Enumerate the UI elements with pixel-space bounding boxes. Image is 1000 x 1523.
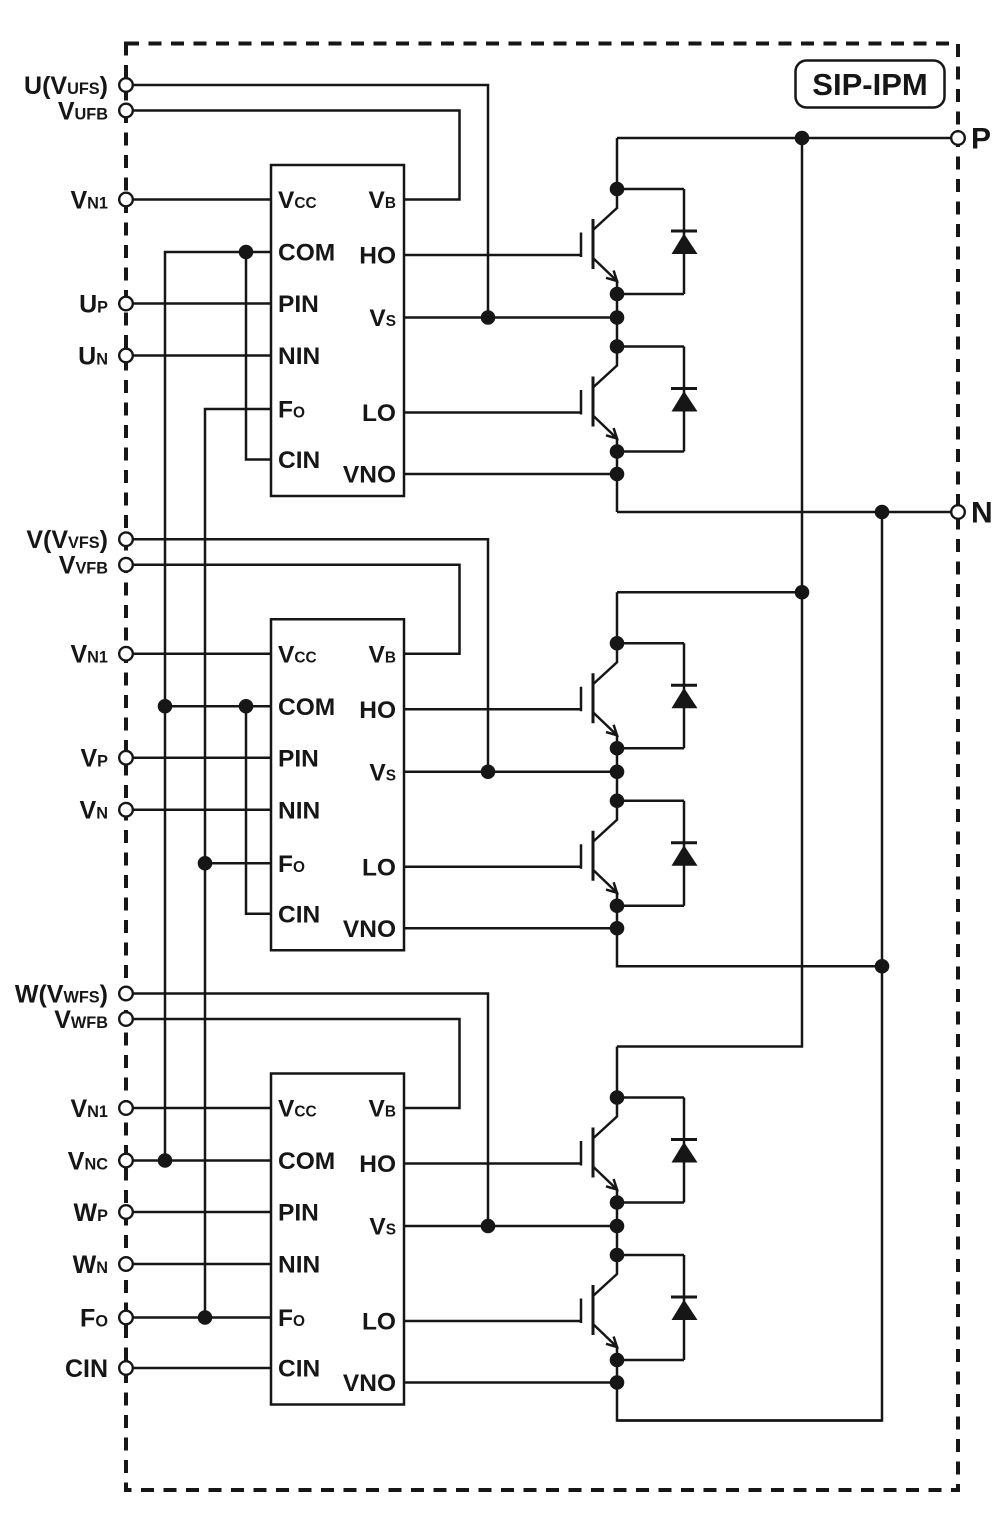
wire LO of U2 to gate of Q4: [404, 866, 581, 869]
junction collector Q4 / D4: [610, 793, 625, 808]
terminal VVFB: [119, 558, 133, 572]
wire emitter of Q4 to N: [617, 906, 882, 967]
terminal VNC: [119, 1154, 133, 1168]
wire Fo bus (Fo pins of U1,U2,U3 to Fo terminal): [205, 409, 271, 1318]
IGBT Q6 (low side, phase W): [581, 1255, 617, 1360]
junction COM/CIN of U1: [239, 245, 254, 260]
IGBT Q5 (high side, phase W): [581, 1098, 617, 1203]
junction emitter Q3 / D3: [610, 741, 625, 756]
wire Vs of U2 to emitter node: [404, 771, 617, 774]
junction collector Q6 / D6: [610, 1248, 625, 1263]
svg-text:LO: LO: [362, 400, 396, 427]
terminal CIN: [119, 1361, 133, 1375]
junction emitter Q2 / D2: [610, 444, 625, 459]
SIP-IPM title box: [796, 61, 945, 108]
wire WP terminal to PIN pin of U3: [133, 1211, 271, 1214]
terminal V(VVVFS): [119, 532, 133, 546]
wire emitter of Q5 to collector of Q6: [616, 1203, 619, 1256]
wire W(WVWFS) terminal to Vs node of phase W: [133, 994, 488, 1227]
terminal Fo: [119, 1311, 133, 1325]
junction N rail / riser: [875, 505, 890, 520]
junction emitter Q1 / D1: [610, 287, 625, 302]
wire emitter of Q3 to collector of Q4: [616, 748, 619, 801]
junction P riser tap to phase V: [795, 585, 810, 600]
terminal WP: [119, 1205, 133, 1219]
terminal WN: [119, 1257, 133, 1271]
svg-text:LO: LO: [362, 1309, 396, 1336]
terminal P: [951, 131, 965, 145]
svg-text:HO: HO: [359, 1151, 396, 1178]
wire emitter of Q6 to N: [617, 1360, 882, 1421]
wire WN terminal to NIN pin of U3: [133, 1263, 271, 1266]
terminal VN1 (phase U): [119, 193, 133, 207]
wire emitter of Q2 to N: [616, 452, 619, 513]
wire LO of U3 to gate of Q6: [404, 1320, 581, 1323]
wire VN1 terminal to Vcc pin of U1: [133, 198, 271, 201]
svg-text:N: N: [971, 496, 993, 529]
junction emitter Q6 / D6: [610, 1353, 625, 1368]
wire collector drop of Q3: [616, 592, 619, 643]
terminal W(WVWFS): [119, 987, 133, 1001]
junction collector Q3 / D3: [610, 636, 625, 651]
wire Vs of U1 to emitter node: [404, 316, 617, 319]
IGBT Q1 (high side, phase U): [581, 189, 617, 294]
wire HO of U1 to gate of Q1: [404, 254, 581, 257]
svg-text:COM: COM: [278, 1148, 335, 1175]
wire UP terminal to PIN pin of U1: [133, 302, 271, 305]
wire VNO of U3 to emitter of Q6: [404, 1381, 617, 1384]
terminal UP: [119, 297, 133, 311]
junction Fo bus at Fo terminal: [198, 1310, 213, 1325]
svg-text:CIN: CIN: [278, 1356, 320, 1383]
free-wheel diode D6: [617, 1255, 698, 1360]
svg-text:VNO: VNO: [343, 1370, 396, 1397]
wire COM bus to COM pin of U2: [165, 705, 271, 708]
junction P rail / riser: [795, 131, 810, 146]
wire Fo terminal to Fo pin of U3: [133, 1316, 271, 1319]
terminal VN1 (phase W): [119, 1101, 133, 1115]
svg-text:CIN: CIN: [65, 1355, 108, 1383]
wire VP terminal to PIN pin of U2: [133, 757, 271, 760]
svg-text:CIN: CIN: [278, 901, 320, 928]
junction collector Q5 / D5: [610, 1090, 625, 1105]
wire VN terminal to NIN pin of U2: [133, 809, 271, 812]
wire COM to CIN link of U2: [246, 706, 271, 914]
junction V-feedback to Vs: [481, 764, 496, 779]
junction VNO node phase W: [610, 1375, 625, 1390]
svg-text:LO: LO: [362, 854, 396, 881]
wire P riser to V/W phases: [617, 138, 802, 1047]
junction N riser tap from phase V: [875, 959, 890, 974]
gate driver U1: [271, 165, 404, 496]
junction U-feedback to Vs: [481, 310, 496, 325]
svg-text:VNO: VNO: [343, 462, 396, 489]
wire HO of U2 to gate of Q3: [404, 708, 581, 711]
wire COM bus (VNC to COM pins of U1,U2,U3): [165, 252, 271, 1161]
gate driver U2: [271, 619, 404, 950]
junction Vs node phase U: [610, 310, 625, 325]
junction VNO node phase V: [610, 921, 625, 936]
svg-text:COM: COM: [278, 240, 335, 267]
wire P rail: [617, 137, 951, 140]
wire N riser to V/W phases: [617, 512, 882, 1421]
free-wheel diode D3: [617, 643, 698, 748]
svg-text:PIN: PIN: [278, 1200, 319, 1227]
svg-text:NIN: NIN: [278, 1252, 320, 1279]
junction COM bus end: [158, 1153, 173, 1168]
svg-text:PIN: PIN: [278, 745, 319, 772]
terminal VN: [119, 803, 133, 817]
wire collector drop of Q5: [616, 1047, 619, 1098]
IGBT Q2 (low side, phase U): [581, 347, 617, 452]
wire VNO of U2 to emitter of Q4: [404, 927, 617, 930]
svg-text:HO: HO: [359, 243, 396, 270]
wire VNO of U1 to emitter of Q2: [404, 473, 617, 476]
IGBT Q3 (high side, phase V): [581, 643, 617, 748]
terminal VP: [119, 751, 133, 765]
wire VN1 terminal to Vcc pin of U3: [133, 1107, 271, 1110]
junction W-feedback to Vs: [481, 1219, 496, 1234]
wire VN1 terminal to Vcc pin of U2: [133, 653, 271, 656]
junction Fo bus at U2: [198, 856, 213, 871]
wire UN terminal to NIN pin of U1: [133, 354, 271, 357]
wire VUFB terminal to VB pin of U1: [133, 111, 460, 200]
svg-text:COM: COM: [278, 694, 335, 721]
junction emitter Q5 / D5: [610, 1195, 625, 1210]
terminal VUFB: [119, 104, 133, 118]
wire CIN terminal to CIN pin of U3: [133, 1367, 271, 1370]
wire P riser tap to collector of Q3: [617, 591, 802, 594]
junction collector Q1 / D1: [610, 182, 625, 197]
svg-text:VNO: VNO: [343, 916, 396, 943]
svg-text:PIN: PIN: [278, 291, 319, 318]
wire COM to CIN link of U1: [246, 252, 271, 460]
svg-text:SIP-IPM: SIP-IPM: [812, 67, 927, 102]
svg-text:HO: HO: [359, 697, 396, 724]
module boundary (dashed package outline): [126, 44, 958, 1491]
wire VNC terminal to COM row: [133, 1159, 271, 1162]
wire emitter of Q1 to collector of Q2: [616, 294, 619, 347]
free-wheel diode D5: [617, 1098, 698, 1203]
wire U(UVUFS) terminal to Vs node of phase U: [133, 85, 488, 318]
IGBT Q4 (low side, phase V): [581, 801, 617, 906]
terminal U(UVUFS): [119, 78, 133, 92]
junction emitter Q4 / D4: [610, 898, 625, 913]
junction COM/CIN of U2: [239, 699, 254, 714]
junction Vs node phase V: [610, 764, 625, 779]
wire V(VVVFS) terminal to Vs node of phase V: [133, 539, 488, 772]
wire HO of U3 to gate of Q5: [404, 1162, 581, 1165]
svg-text:NIN: NIN: [278, 343, 320, 370]
junction collector Q2 / D2: [610, 339, 625, 354]
svg-text:CIN: CIN: [278, 447, 320, 474]
gate driver U3: [271, 1074, 404, 1405]
free-wheel diode D1: [617, 189, 698, 294]
wire VVFB terminal to VB pin of U2: [133, 565, 460, 654]
free-wheel diode D4: [617, 801, 698, 906]
wire N rail: [617, 511, 951, 514]
terminal VWFB: [119, 1012, 133, 1026]
svg-text:NIN: NIN: [278, 797, 320, 824]
junction COM bus at U2: [158, 699, 173, 714]
free-wheel diode D2: [617, 347, 698, 452]
svg-text:P: P: [971, 122, 991, 155]
wire LO of U1 to gate of Q2: [404, 411, 581, 414]
terminal VN1 (phase V): [119, 647, 133, 661]
wire Vs of U3 to emitter node: [404, 1225, 617, 1228]
wire P rail drop to collector of Q1: [616, 138, 619, 189]
wire VWFB terminal to VB pin of U3: [133, 1019, 460, 1108]
wire Fo pin stub of U2: [205, 862, 271, 865]
junction VNO node phase U: [610, 467, 625, 482]
terminal N: [951, 505, 965, 519]
terminal UN: [119, 349, 133, 363]
junction Vs node phase W: [610, 1219, 625, 1234]
